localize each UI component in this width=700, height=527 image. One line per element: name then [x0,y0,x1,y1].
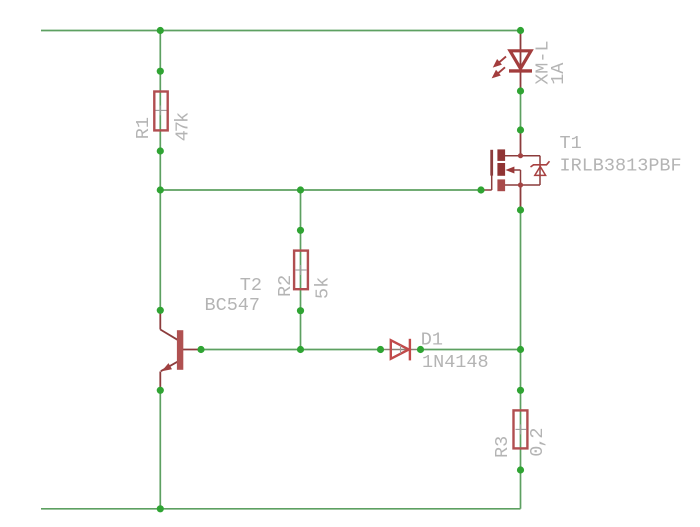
svg-text:47k: 47k [173,112,194,141]
svg-text:R1: R1 [133,117,154,139]
svg-text:R2: R2 [275,275,296,297]
svg-text:T2: T2 [240,275,262,296]
svg-text:1N4148: 1N4148 [422,352,489,373]
svg-text:D1: D1 [421,329,443,350]
svg-text:BC547: BC547 [205,295,261,316]
svg-text:5k: 5k [313,277,334,299]
svg-text:0,2: 0,2 [527,429,548,457]
svg-text:IRLB3813PBF: IRLB3813PBF [560,156,682,177]
svg-text:R3: R3 [492,436,513,458]
svg-text:1A: 1A [548,62,569,85]
svg-text:T1: T1 [560,133,582,154]
